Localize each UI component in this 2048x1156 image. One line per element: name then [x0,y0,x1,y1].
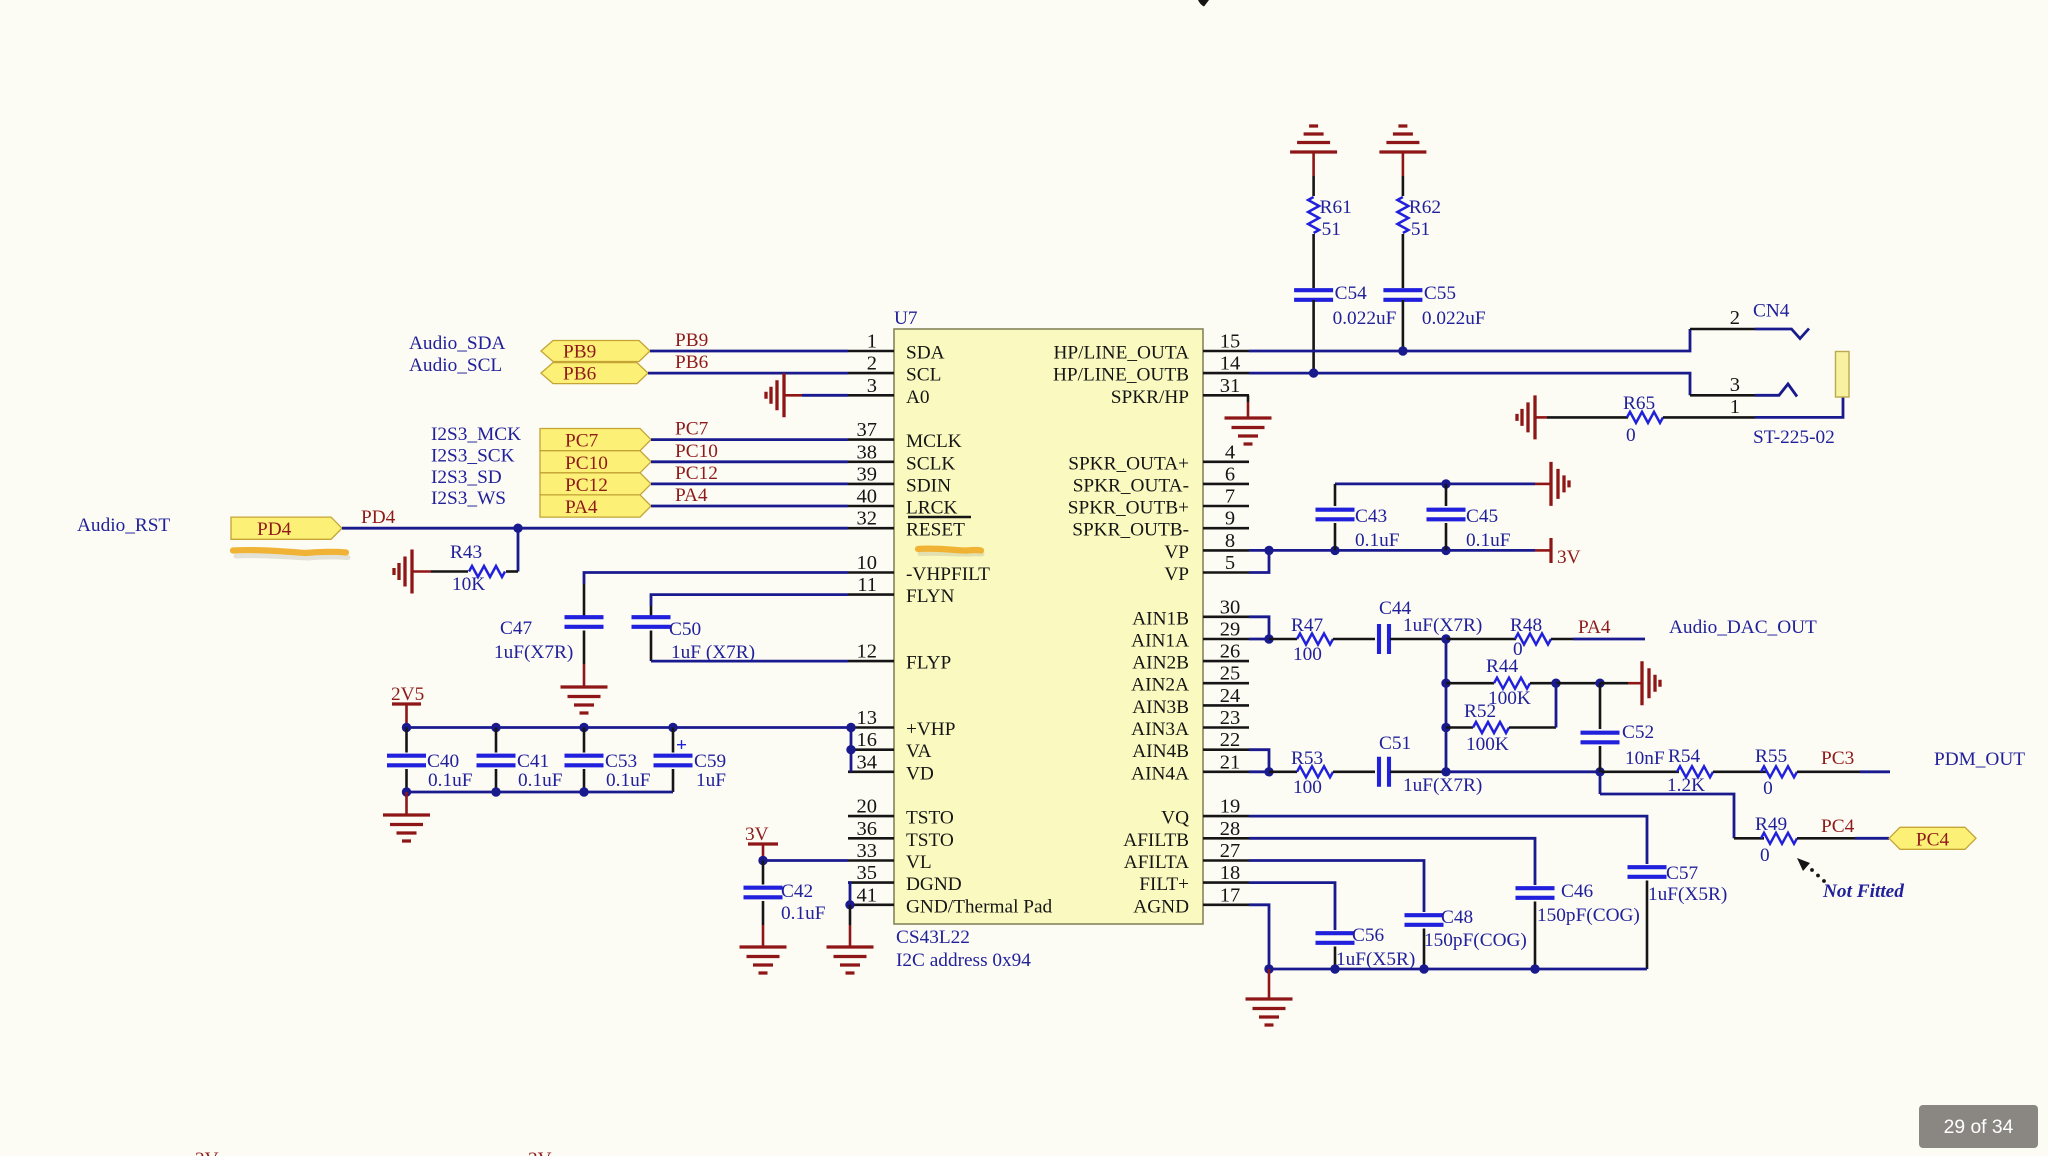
ground left of R65 [1517,395,1547,439]
svg-text:C41: C41 [517,751,549,772]
pin 36 TSTO [848,818,954,851]
capacitor C54 0.022uF [1294,283,1397,329]
svg-text:C57: C57 [1666,863,1699,884]
svg-text:R55: R55 [1755,746,1787,767]
junction C52 bottom [1595,767,1604,776]
svg-text:150pF(COG): 150pF(COG) [1537,905,1640,926]
svg-text:0.1uF: 0.1uF [1355,530,1400,551]
resistor R47 100 [1269,615,1375,665]
svg-text:AIN4B: AIN4B [1132,741,1189,762]
junction C45 top link [1441,479,1450,488]
highlight marker under PD4 flag [236,556,348,558]
svg-text:SPKR/HP: SPKR/HP [1111,387,1189,408]
svg-text:VP: VP [1164,564,1189,585]
svg-text:CN4: CN4 [1753,301,1790,322]
junction R44 right [1551,679,1560,688]
wire net VP pins 8 and 5 [1249,550,1535,572]
svg-text:R48: R48 [1510,615,1542,636]
svg-text:PC7: PC7 [565,431,599,452]
svg-text:34: 34 [857,751,878,773]
wire net VL pin 33 [763,859,848,862]
wire net PD4 / RESET [342,527,848,530]
svg-text:PC3: PC3 [1821,748,1854,769]
wire net PB6 / SCL [648,372,848,375]
pin 4 SPKR_OUTA+ [1068,441,1249,474]
svg-text:R49: R49 [1755,814,1787,835]
svg-text:SPKR_OUTB-: SPKR_OUTB- [1072,520,1189,541]
net flag PB9 [541,341,650,363]
svg-text:PC12: PC12 [675,463,718,484]
svg-text:PC4: PC4 [1916,829,1950,850]
svg-text:PB9: PB9 [675,330,708,351]
svg-text:R54: R54 [1668,746,1701,767]
ground on A0 pin 3 [766,373,802,417]
junction ground rail [402,787,411,796]
svg-text:3V: 3V [745,824,769,845]
ground on SPKR/HP pin 31 [1225,395,1272,444]
pin 29 AIN1A [1131,619,1249,652]
CN4 pin 2 switch contact [1755,329,1809,339]
junction C45 on VP [1441,546,1450,555]
junction R43 tap [513,524,522,533]
junction pin29/30 [1264,634,1273,643]
pin 6 SPKR_OUTA- [1073,463,1249,496]
net flag PC10 [540,451,651,474]
capacitor C41 0.1uF [477,728,563,793]
svg-text:FILT+: FILT+ [1139,874,1189,895]
svg-text:AIN3A: AIN3A [1131,719,1189,740]
pin 37 MCLK [848,419,962,452]
svg-text:Not Fitted: Not Fitted [1822,881,1904,902]
pin 7 SPKR_OUTB+ [1068,486,1249,519]
wire feedback vertical node A [1445,639,1448,772]
svg-text:AGND: AGND [1133,896,1189,917]
wire node A to C52 bottom [1446,770,1600,773]
svg-text:SDA: SDA [906,343,945,364]
highlight marker inside IC under RESET [920,551,982,557]
pin 41 GND/Thermal Pad [848,884,1053,917]
pin 3 A0 [848,375,930,408]
pin 5 VP [1164,552,1249,585]
svg-text:27: 27 [1220,840,1241,862]
svg-text:0.1uF: 0.1uF [606,770,651,791]
svg-text:I2S3_SCK: I2S3_SCK [431,446,515,467]
svg-text:1uF: 1uF [696,770,726,791]
svg-text:LRCK: LRCK [906,498,957,519]
svg-text:6: 6 [1225,463,1235,485]
svg-text:AIN2A: AIN2A [1131,675,1189,696]
ground left of R43 [394,550,431,594]
svg-text:C43: C43 [1355,506,1387,527]
svg-text:20: 20 [857,796,878,818]
svg-text:100: 100 [1293,644,1322,665]
svg-text:10nF: 10nF [1625,748,1665,769]
pin 23 AIN3A [1131,707,1249,740]
resistor R43 10K [431,542,518,595]
junction +VHP rail [491,723,500,732]
pin 16 VA [848,729,931,762]
resistor R44 100K [1446,656,1556,709]
svg-text:R61: R61 [1320,197,1352,218]
wire net AFILTA pin 27 [1249,861,1424,913]
junction VL tap [758,856,767,865]
svg-text:38: 38 [857,441,878,463]
page badge 29 of 34 [1919,1105,2038,1148]
pin 35 DGND [848,862,962,895]
svg-text:C42: C42 [781,881,813,902]
net flag PD4 [231,517,342,540]
svg-text:PDM_OUT: PDM_OUT [1934,749,2025,770]
svg-text:18: 18 [1220,862,1241,884]
svg-text:C50: C50 [669,619,701,640]
wire net FILT+ pin 18 [1249,883,1335,930]
svg-text:25: 25 [1220,663,1241,685]
pin 22 AIN4B [1132,729,1249,762]
svg-text:TSTO: TSTO [906,830,954,851]
junction C48 on rail [1419,964,1428,973]
wire net PA4 audio dac out [1573,638,1645,641]
svg-text:2V5: 2V5 [391,684,424,705]
wire R65 to CN4 pin 1 [1663,398,1843,418]
svg-text:PC10: PC10 [565,453,608,474]
clipped mark top center [1198,0,1209,7]
pin 28 AFILTB [1123,818,1249,851]
svg-text:2: 2 [1730,307,1740,329]
wire VA/VD riser [850,728,853,772]
RESET overline (active low) [908,516,971,519]
svg-text:ST-225-02: ST-225-02 [1753,427,1835,448]
svg-text:R44: R44 [1486,656,1519,677]
pin 17 AGND [1133,884,1249,917]
wire R44 to C52 node [1556,682,1600,685]
power symbol 2V5 [391,684,424,728]
capacitor C42 0.1uF [744,861,826,926]
svg-text:VQ: VQ [1161,808,1189,829]
ground above R61 [1290,126,1337,176]
pin 25 AIN2A [1131,663,1249,696]
pin 9 SPKR_OUTB- [1072,508,1249,541]
svg-text:21: 21 [1220,751,1241,773]
svg-text:10K: 10K [452,574,485,595]
svg-text:3: 3 [867,375,877,397]
svg-text:SCLK: SCLK [906,453,955,474]
svg-text:C59: C59 [694,751,726,772]
svg-text:22: 22 [1220,729,1241,751]
wire net PA4 [651,505,848,508]
svg-text:U7: U7 [894,308,918,329]
svg-text:SDIN: SDIN [906,475,951,496]
svg-text:100K: 100K [1466,734,1509,755]
svg-text:R65: R65 [1623,393,1655,414]
svg-text:C40: C40 [427,751,459,772]
svg-text:Audio_SCL: Audio_SCL [409,355,502,376]
junction VA riser [846,745,855,754]
pin 21 AIN4A [1131,751,1249,784]
net flag PB6 [541,363,648,385]
svg-text:PA4: PA4 [1578,617,1611,638]
svg-text:0: 0 [1763,778,1773,799]
wire net -VHPFILT pin 10 [584,573,848,585]
wire net PC10 [651,460,848,463]
junction GND pad [845,900,854,909]
wire net PC3 pdm out [1860,770,1890,773]
junction C51 node A bottom [1441,767,1450,776]
ground right of C43/C45 link [1535,462,1569,506]
svg-text:Audio_RST: Audio_RST [77,515,170,536]
svg-text:HP/LINE_OUTB: HP/LINE_OUTB [1053,365,1189,386]
wire decoupling ground rail [407,791,674,794]
svg-text:13: 13 [857,707,878,729]
svg-text:51: 51 [1411,219,1430,240]
ground right of R44 [1600,661,1660,705]
svg-text:1: 1 [867,331,877,353]
svg-text:17: 17 [1220,884,1241,906]
svg-text:30: 30 [1220,596,1241,618]
svg-text:29: 29 [1220,619,1241,641]
svg-text:Audio_SDA: Audio_SDA [409,333,505,354]
wire pin 30 to pin 29 net [1249,617,1269,639]
svg-text:C52: C52 [1622,722,1654,743]
svg-text:24: 24 [1220,685,1241,707]
capacitor C40 0.1uF [387,728,473,793]
capacitor C55 0.022uF [1383,283,1486,329]
svg-text:32: 32 [857,508,878,530]
svg-text:39: 39 [857,463,878,485]
wire R61 to C54 [1312,234,1315,288]
capacitor C45 0.1uF [1427,484,1511,551]
resistor R49 0 [1734,814,1855,866]
junction C56 on rail [1330,964,1339,973]
svg-text:29 of 34: 29 of 34 [1944,1117,2014,1138]
wire C43/C45 top link [1335,482,1535,485]
pin 15 HP/LINE_OUTA [1053,331,1249,364]
svg-text:R43: R43 [450,542,482,563]
svg-text:A0: A0 [906,387,930,408]
svg-text:AFILTA: AFILTA [1124,852,1189,873]
svg-text:1uF(X7R): 1uF(X7R) [494,642,573,663]
svg-text:PB6: PB6 [563,364,597,385]
svg-text:Audio_DAC_OUT: Audio_DAC_OUT [1669,617,1817,638]
resistor R55 0 [1755,746,1860,799]
svg-text:0.022uF: 0.022uF [1422,308,1486,329]
svg-text:R52: R52 [1464,701,1496,722]
capacitor C52 10nF [1581,683,1665,772]
svg-text:C51: C51 [1379,733,1411,754]
wire R62 to C55 [1402,234,1405,288]
svg-text:16: 16 [857,729,878,751]
svg-text:1uF(X7R): 1uF(X7R) [1403,775,1482,796]
svg-text:SCL: SCL [906,365,941,386]
svg-text:9: 9 [1225,508,1235,530]
svg-text:C47: C47 [500,618,533,639]
svg-text:SPKR_OUTB+: SPKR_OUTB+ [1068,498,1189,519]
not fitted annotation with arrow [1797,858,1904,902]
power symbol 3V on VL [745,824,778,861]
svg-text:FLYP: FLYP [906,653,951,674]
capacitor C53 0.1uF [565,728,651,793]
svg-text:11: 11 [857,574,877,596]
svg-text:C45: C45 [1466,506,1498,527]
pin 32 RESET [848,508,965,541]
svg-text:TSTO: TSTO [906,808,954,829]
capacitor C57 1uF(X5R) [1628,863,1728,969]
svg-text:12: 12 [857,641,878,663]
pin 10 -VHPFILT [848,552,990,585]
svg-text:PA4: PA4 [565,497,598,518]
pin 20 TSTO [848,796,954,829]
pin 1 SDA [848,331,945,364]
svg-text:26: 26 [1220,641,1241,663]
svg-text:VP: VP [1164,542,1189,563]
pin 24 AIN3B [1132,685,1249,718]
wire C55 to HP/LINE_OUTA net [1402,300,1405,351]
svg-text:C48: C48 [1441,907,1473,928]
resistor R48 0 [1446,615,1573,660]
svg-text:AIN4A: AIN4A [1131,763,1189,784]
junction ground rail [491,787,500,796]
ground below AGND rail [1246,969,1293,1025]
wire net HP/LINE_OUTA to CN4 pin 2 [1249,329,1755,351]
junction VP riser [1264,546,1273,555]
svg-text:I2S3_SD: I2S3_SD [431,467,502,488]
resistor R52 100K [1446,683,1556,755]
capacitor C43 0.1uF [1316,484,1400,551]
junction C54 on HP/LINE_OUTB [1309,368,1318,377]
pin 30 AIN1B [1132,596,1249,629]
svg-text:3V: 3V [528,1149,552,1156]
svg-text:PC12: PC12 [565,475,608,496]
net flag PC7 [540,429,651,452]
pin 39 SDIN [848,463,951,496]
svg-text:PC10: PC10 [675,441,718,462]
svg-text:CS43L22: CS43L22 [896,927,970,948]
junction R52 left [1441,723,1450,732]
net flag PC12 [540,473,651,496]
pin 8 VP [1164,530,1249,563]
CN4 pin 3 switch contact [1755,384,1797,397]
pin 33 VL [848,840,932,873]
wire ground to R65 [1547,416,1628,419]
junction C43 on VP [1330,546,1339,555]
wire PD4 down to R43 [517,528,520,571]
svg-text:DGND: DGND [906,874,962,895]
ground below decoupling rail [383,792,430,841]
capacitor C51 1uF(X7R) [1379,733,1482,796]
svg-text:C55: C55 [1424,283,1456,304]
capacitor C56 1uF(X5R) [1316,925,1416,970]
svg-text:19: 19 [1220,796,1241,818]
pin 26 AIN2B [1132,641,1249,674]
pin 13 +VHP [848,707,955,740]
pin 11 FLYN [848,574,954,607]
svg-text:33: 33 [857,840,878,862]
power symbol 3V on VP rail [1535,538,1581,568]
junction AGND drop [1264,964,1273,973]
wire R61 top lead [1312,176,1315,196]
svg-text:4: 4 [1225,441,1235,463]
svg-text:0.022uF: 0.022uF [1333,308,1397,329]
ground below C47 [561,664,608,713]
svg-text:VA: VA [906,741,931,762]
pin 2 SCL [848,353,941,386]
svg-text:100: 100 [1293,777,1322,798]
capacitor C48 150pF(COG) [1405,907,1527,969]
svg-text:R62: R62 [1409,197,1441,218]
svg-text:PD4: PD4 [257,519,292,540]
capacitor C47 1uF(X7R) [494,617,604,664]
svg-text:C54: C54 [1335,283,1368,304]
svg-text:PC7: PC7 [675,419,709,440]
junction +VHP rail [846,723,855,732]
svg-text:1uF(X5R): 1uF(X5R) [1336,949,1415,970]
svg-text:3: 3 [1730,374,1740,396]
svg-text:VD: VD [906,763,934,784]
ground above R62 [1379,126,1426,176]
pin 34 VD [848,751,934,784]
wire net AFILTB pin 28 [1249,838,1535,885]
svg-text:PD4: PD4 [361,507,396,528]
junction +VHP rail [579,723,588,732]
wire C54 to HP/LINE_OUTB net [1312,300,1315,373]
wire A0 to ground [802,394,848,397]
wire net PC12 [651,482,848,485]
pin 12 FLYP [848,641,951,674]
svg-text:1uF(X7R): 1uF(X7R) [1403,615,1482,636]
svg-text:150pF(COG): 150pF(COG) [1424,930,1527,951]
svg-text:RESET: RESET [906,520,965,541]
svg-text:2V: 2V [195,1149,219,1156]
svg-text:PB9: PB9 [563,342,596,363]
svg-text:+VHP: +VHP [906,719,955,740]
wire R62 top lead [1402,176,1405,196]
junction C44 output node [1441,634,1450,643]
op-amp U7 codec IC body CS43L22 [894,329,1203,924]
pin 40 LRCK [848,486,957,519]
CN4 jack sleeve [1836,352,1850,398]
svg-text:15: 15 [1220,331,1241,353]
junction +VHP rail [668,723,677,732]
svg-text:R53: R53 [1291,748,1323,769]
svg-text:31: 31 [1220,375,1241,397]
svg-text:0.1uF: 0.1uF [1466,530,1511,551]
wire net FLYP pin 12 [651,660,848,663]
resistor R54 1.2K [1600,746,1767,796]
ground below C42 [740,925,787,973]
pin 14 HP/LINE_OUTB [1053,353,1249,386]
pin 27 AFILTA [1124,840,1249,873]
svg-text:41: 41 [857,884,878,906]
svg-text:-VHPFILT: -VHPFILT [906,564,990,585]
resistor R62 51 [1397,197,1441,240]
junction ground rail [579,787,588,796]
svg-text:28: 28 [1220,818,1241,840]
svg-text:7: 7 [1225,486,1235,508]
svg-text:AIN2B: AIN2B [1132,653,1189,674]
svg-text:5: 5 [1225,552,1235,574]
capacitor C59 1uF polarized [654,728,727,793]
pin 31 SPKR/HP [1111,375,1249,408]
svg-text:0.1uF: 0.1uF [518,770,563,791]
svg-text:2: 2 [867,353,877,375]
wire net AGND pin 17 to ground rail [1249,905,1647,969]
resistor R61 51 [1308,197,1352,240]
wire net VQ pin 19 [1249,816,1647,864]
svg-text:35: 35 [857,862,878,884]
svg-text:0: 0 [1760,845,1770,866]
junction R44 left [1441,679,1450,688]
svg-text:AIN1A: AIN1A [1131,631,1189,652]
capacitor C44 1uF(X7R) [1379,598,1482,654]
